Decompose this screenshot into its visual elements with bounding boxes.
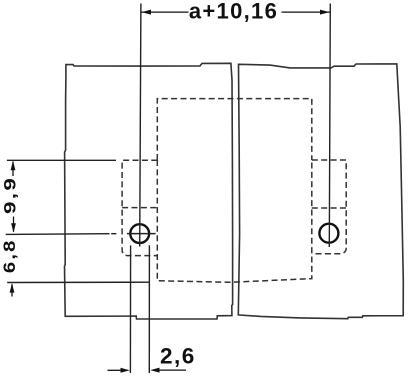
extension line 9,9 top [7,159,116,161]
svg-text:2,6: 2,6 [160,344,196,369]
svg-text:9,9: 9,9 [1,176,20,214]
connector body dashed outline (big dashed rectangle) [157,99,311,283]
panel left outline [65,63,233,319]
centerline right hole vertical [329,4,330,248]
svg-text:6,8: 6,8 [0,239,19,274]
hole pocket left (small dashed rectangle, rounded bottom-left) [122,160,157,255]
svg-text:a+10,16: a+10,16 [189,0,278,24]
panel right outline [238,64,403,319]
extension line 6,8 bottom [7,281,150,283]
extension line hole tangent left [129,245,131,373]
centerline left hole vertical [140,4,141,247]
hole pocket right (small dashed rectangle, rounded bottom-right) [312,160,346,254]
extension line hole-center left [6,233,110,236]
mounting hole left [130,224,149,243]
centerline left hole horizontal short dash [111,233,116,235]
dimension 9,9 [11,161,16,233]
dimension 2,6 bottom [108,368,187,373]
centerline left hole horizontal [127,233,156,235]
extension line hole tangent right [148,245,150,373]
dimension 6,8 [10,283,15,296]
dimension a+10,16 top [141,10,330,15]
mounting hole right [319,224,338,243]
